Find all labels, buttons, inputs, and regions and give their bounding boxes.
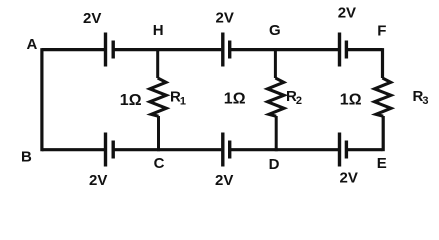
svg-text:A: A xyxy=(27,36,38,53)
battery bottom-1 short plate xyxy=(111,141,114,159)
svg-text:R2: R2 xyxy=(286,88,302,107)
battery top-1 long plate xyxy=(104,33,107,67)
svg-text:2V: 2V xyxy=(338,5,356,22)
wire: bottom rail, battery bottom-3 to corner at node E xyxy=(346,148,382,151)
svg-text:E: E xyxy=(377,155,387,172)
svg-text:2V: 2V xyxy=(340,170,358,187)
svg-text:R1: R1 xyxy=(170,89,186,108)
svg-text:2V: 2V xyxy=(89,172,107,189)
wire: left vertical, node A to node B xyxy=(40,48,43,151)
svg-text:2V: 2V xyxy=(83,10,101,27)
wire: top rail, battery top-2 to battery top-3 (through node G) xyxy=(230,48,338,51)
wire: bottom rail, battery bottom-2 to battery bottom-3 (through node D) xyxy=(230,148,338,151)
battery bottom-3 long plate xyxy=(338,133,341,167)
resistor R1 (with leads from node H to node C) xyxy=(156,48,159,78)
wire: bottom rail, battery bottom-1 to battery bottom-2 (through node C) xyxy=(113,148,221,151)
svg-text:G: G xyxy=(269,22,281,39)
battery bottom-3 short plate xyxy=(345,141,348,159)
svg-text:2V: 2V xyxy=(215,172,233,189)
svg-text:H: H xyxy=(153,22,164,39)
wire: top rail, battery top-3 to corner at node F xyxy=(346,48,382,51)
battery top-2 short plate xyxy=(228,41,231,59)
svg-text:C: C xyxy=(154,155,165,172)
wire: top rail, battery top-1 to battery top-2 (through node H) xyxy=(113,48,221,51)
resistor R2 (with leads from node G to node D) xyxy=(274,48,277,78)
battery top-2 long plate xyxy=(221,33,224,67)
svg-text:1Ω: 1Ω xyxy=(340,92,362,109)
battery top-3 short plate xyxy=(345,41,348,59)
svg-text:F: F xyxy=(377,22,386,39)
battery bottom-1 long plate xyxy=(104,133,107,167)
svg-text:B: B xyxy=(21,149,32,166)
svg-text:1Ω: 1Ω xyxy=(120,92,142,109)
battery bottom-2 long plate xyxy=(221,133,224,167)
svg-text:R3: R3 xyxy=(413,88,429,107)
battery top-1 short plate xyxy=(111,41,114,59)
resistor R3 (with leads from node F to node E) xyxy=(381,48,384,78)
battery top-3 long plate xyxy=(338,33,341,67)
svg-text:1Ω: 1Ω xyxy=(224,91,246,108)
wire: bottom rail, node B to battery bottom-1 long plate xyxy=(42,148,104,151)
battery bottom-2 short plate xyxy=(228,141,231,159)
svg-text:2V: 2V xyxy=(216,10,234,27)
wire: top rail, node A to battery top-1 long plate xyxy=(42,48,104,51)
svg-text:D: D xyxy=(269,156,280,173)
